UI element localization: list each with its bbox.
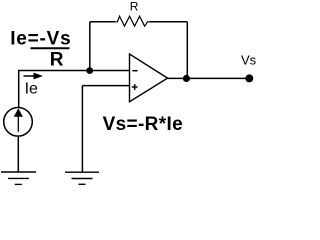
svg-text:Ie: Ie: [25, 80, 38, 97]
wire: non-inverting input vertical to ground: [81, 86, 83, 172]
formula Ie=-Vs/R: [10, 28, 71, 70]
wire: feedback top left segment: [90, 21, 116, 23]
label Ie with current direction arrow: [24, 73, 44, 98]
wire: op-amp output: [168, 77, 250, 79]
svg-text:R: R: [130, 0, 139, 14]
ground (non-inverting input): [65, 172, 99, 184]
wire: feedback right vertical: [186, 22, 188, 79]
svg-text:Vs: Vs: [241, 53, 257, 68]
node Vs terminal: [245, 74, 253, 82]
node: output junction: [183, 75, 190, 82]
svg-text:Ie=-Vs: Ie=-Vs: [10, 28, 71, 49]
current source I1: [4, 108, 33, 137]
wire: current source to ground: [17, 137, 19, 172]
svg-text:R: R: [50, 50, 64, 71]
ground (below current source): [1, 172, 36, 184]
svg-text:Vs=-R*Ie: Vs=-R*Ie: [103, 114, 183, 135]
wire: left vertical to current source: [18, 71, 20, 108]
wire: feedback left vertical: [89, 22, 91, 68]
wire: feedback top right segment: [150, 21, 188, 23]
resistor R: [115, 16, 149, 26]
node: junction at inverting input: [86, 67, 93, 74]
wire: non-inverting input horizontal: [82, 85, 129, 87]
wire: inverting input horizontal run: [18, 70, 130, 72]
op-amp U1: [130, 54, 168, 102]
